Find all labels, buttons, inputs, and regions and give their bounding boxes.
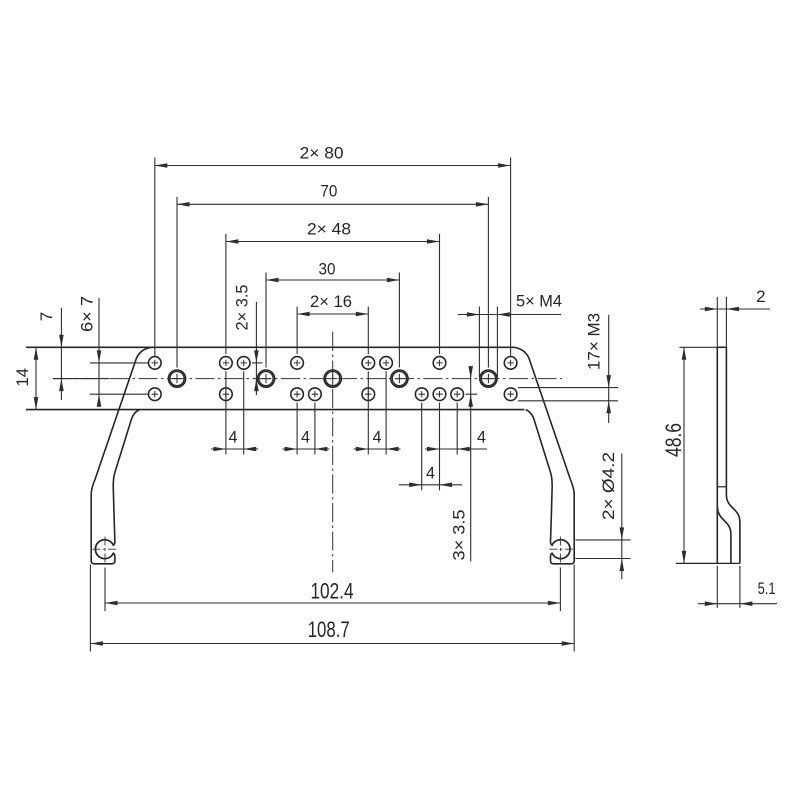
M3 tapped hole, bottom row, -8mm from center xyxy=(291,388,304,401)
M3 tapped hole, top row, -20mm from center xyxy=(237,357,250,370)
side view: top edge of plate xyxy=(717,346,726,348)
svg-text:14: 14 xyxy=(13,368,32,387)
dimension 6x 7 (hole row spacing), outside arrows, rotated text xyxy=(98,298,100,403)
M4 tapped hole on centerline, +15mm from center xyxy=(391,370,408,387)
svg-text:70: 70 xyxy=(320,182,337,201)
M3 tapped hole, bottom row, -24mm from center xyxy=(220,388,233,401)
dimension 4 between bottom-row holes +24/+28, text offset right xyxy=(456,403,458,455)
svg-text:2× 16: 2× 16 xyxy=(310,292,352,311)
dimension 4 between top-row holes +8/+12 with extension lines xyxy=(367,371,369,454)
dimension 3x 3.5 (bottom row offset), long line down with rotated text xyxy=(470,366,472,562)
svg-text:48.6: 48.6 xyxy=(661,423,686,457)
left foot hole center mark vertical (dash-dot) xyxy=(104,537,106,566)
svg-text:2× Ø4.2: 2× Ø4.2 xyxy=(599,452,618,520)
M3 tapped hole, top row, +40mm from center xyxy=(504,357,517,370)
svg-text:4: 4 xyxy=(426,463,435,482)
svg-text:2: 2 xyxy=(756,287,765,306)
svg-text:17× M3: 17× M3 xyxy=(585,313,604,370)
extension lines of hole rows to the left (for 6x7) xyxy=(90,362,148,364)
dimension 2x 48 with extension lines xyxy=(225,234,227,354)
M3 tapped hole, top row, -8mm from center xyxy=(291,357,304,370)
right foot hole center mark horizontal (dash-dot) xyxy=(547,548,573,550)
dimension 2x dia4.2 grip holes (tangent lines from right foot, rotated text) xyxy=(576,539,631,541)
dimension 102.4 (foot hole centers) with extension lines xyxy=(104,568,106,612)
M3 tapped hole, bottom row, +24mm from center xyxy=(433,388,446,401)
side view: plate left surface line (straight, full height) xyxy=(716,347,718,563)
dimension 14 (bar height), line with inward arrows, rotated text xyxy=(35,347,37,409)
M3 tapped hole, bottom row, -4mm from center xyxy=(309,388,322,401)
M3 tapped hole, top row, +8mm from center xyxy=(362,357,375,370)
grip hole 4.2 dia in left foot (arc open toward slot) xyxy=(96,540,114,559)
dimension 2x 16 with extension lines xyxy=(296,307,298,355)
dimension 5x M4 thread callout on rightmost M4 hole (tangent lines + outside arrows) xyxy=(478,307,480,378)
side view: plate right surface line with joggle to foot xyxy=(726,347,740,563)
dimension 2x 80 (outer M3 columns) with extension lines xyxy=(154,158,156,356)
svg-text:4: 4 xyxy=(229,428,238,447)
svg-text:5× M4: 5× M4 xyxy=(516,292,562,311)
centerline extension to the left for 7-dimension xyxy=(53,378,110,380)
M3 tapped hole, top row, +12mm from center xyxy=(380,357,393,370)
side view: bend tangent edge line xyxy=(717,486,726,488)
dimension 108.7 (overall width) with extension lines xyxy=(89,565,91,652)
svg-text:102.4: 102.4 xyxy=(311,579,354,604)
front view: handle bar top edge (with 14-dim extension to the left) xyxy=(26,346,514,348)
dimension 30 (inner M4 holes) with extension lines xyxy=(265,273,267,368)
vertical centerline of part (dash-dot) xyxy=(332,332,334,572)
M3 tapped hole, bottom row, +40mm from center xyxy=(504,388,517,401)
M3 tapped hole, bottom row, +28mm from center xyxy=(451,388,464,401)
left foot hole center mark horizontal (dash-dot) xyxy=(93,548,119,550)
M4 tapped hole on centerline, +35mm from center xyxy=(480,370,497,387)
grip hole 4.2 dia in right foot (arc open toward slot) xyxy=(552,540,570,559)
M3 tapped hole, bottom row, +8mm from center xyxy=(362,388,375,401)
side view: foot bottom edge and 48.6 lower extension line xyxy=(676,562,740,564)
dimension 2x 3.5 (top row offset from centerline), rotated text xyxy=(255,302,257,395)
svg-text:4: 4 xyxy=(373,428,382,447)
M3 tapped hole, top row, -40mm from center xyxy=(149,357,162,370)
M4 tapped hole on centerline, -15mm from center xyxy=(257,370,274,387)
horizontal centerline of bar (dash-dot) xyxy=(53,378,562,380)
svg-text:2× 80: 2× 80 xyxy=(300,144,344,163)
side view: joggle bend line of foot tab (inner) xyxy=(717,507,731,564)
dimension 5.1 (foot offset depth) with extension lines below side view xyxy=(716,566,718,608)
dimension 4 between bottom-row holes -8/-4 with extension lines xyxy=(296,403,298,455)
dimension 4 between bottom-row holes +20/+24 with extension lines xyxy=(421,403,423,491)
svg-text:5.1: 5.1 xyxy=(758,579,776,598)
svg-text:4: 4 xyxy=(301,428,310,447)
dimension 17x M3 thread callout (tangent lines right of bar, outside arrows, rotated text) xyxy=(518,387,618,389)
M4 tapped hole on centerline, -35mm from center xyxy=(168,370,185,387)
svg-text:4: 4 xyxy=(477,428,486,447)
M3 tapped hole, top row, +24mm from center xyxy=(433,357,446,370)
dimension 4 between top-row holes -24/-20 with extension lines xyxy=(225,371,227,454)
M3 tapped hole, bottom row, -40mm from center xyxy=(149,388,162,401)
M3 tapped hole, top row, -24mm from center xyxy=(220,357,233,370)
svg-text:2× 3.5: 2× 3.5 xyxy=(232,285,251,331)
svg-text:30: 30 xyxy=(319,260,336,279)
right foot hole center mark vertical (dash-dot) xyxy=(559,537,561,566)
svg-text:7: 7 xyxy=(37,312,56,321)
svg-text:2× 48: 2× 48 xyxy=(307,220,351,239)
svg-text:6× 7: 6× 7 xyxy=(78,296,97,332)
dimension 70 (outer M4 holes) with extension lines xyxy=(176,197,178,368)
front view: handle bar bottom edge (with extension to the left) xyxy=(26,409,524,411)
M4 tapped hole on centerline, +0mm from center xyxy=(324,370,341,387)
svg-text:108.7: 108.7 xyxy=(308,617,350,642)
M3 tapped hole, bottom row, +20mm from center xyxy=(415,388,428,401)
front view: left leg and foot outline (hook slot around grip hole) xyxy=(91,347,152,564)
svg-text:3× 3.5: 3× 3.5 xyxy=(449,510,468,561)
dimension 48.6 (overall height, side view) rotated text xyxy=(680,346,718,348)
dimension 7 (top edge to centerline), outside arrows, rotated text xyxy=(60,308,62,400)
front view: right leg and foot outline (mirrored) xyxy=(514,347,575,564)
dimension 2 (plate thickness) with extension lines above side view xyxy=(716,297,718,347)
